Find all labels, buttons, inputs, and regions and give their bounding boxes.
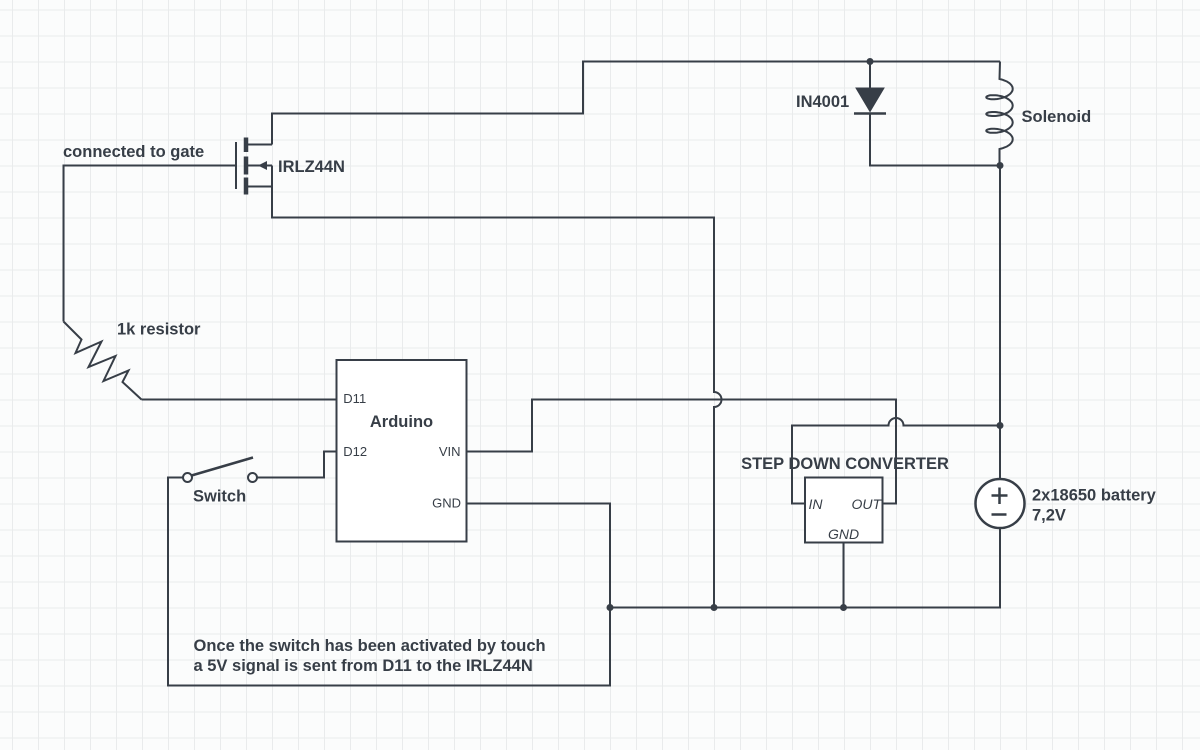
wire drain to top rail [272, 62, 1000, 145]
node gnd converter [840, 604, 847, 611]
wire converter GND lead [843, 543, 845, 608]
node gnd mid [711, 604, 718, 611]
wire resistor to D11 [142, 399, 337, 401]
step-down converter U2 box [805, 478, 883, 543]
wire battery bottom rail [610, 528, 1000, 608]
node battery plus [997, 422, 1004, 429]
node diode top [867, 58, 874, 65]
svg-text:7,2V: 7,2V [1032, 507, 1066, 525]
switch S1 [183, 458, 257, 483]
junction dots [607, 58, 1004, 611]
wire VIN to converter OUT [467, 400, 897, 504]
arduino U1 box [337, 360, 467, 542]
svg-text:1k resistor: 1k resistor [117, 321, 201, 339]
svg-text:Arduino: Arduino [370, 413, 433, 431]
svg-text:IN: IN [809, 496, 824, 512]
svg-text:a 5V signal is sent from D11 t: a 5V signal is sent from D11 to the IRLZ… [194, 657, 533, 675]
wire converter IN to battery with hop [792, 418, 1000, 503]
transistor Q1 IRLZ44N [236, 138, 272, 195]
svg-text:Once the switch has been activ: Once the switch has been activated by to… [194, 637, 546, 655]
resistor R 1k [64, 322, 142, 400]
svg-text:VIN: VIN [439, 444, 461, 459]
inductor L1 solenoid [986, 62, 1012, 166]
svg-text:D11: D11 [343, 391, 366, 406]
svg-text:IN4001: IN4001 [796, 93, 849, 111]
svg-text:GND: GND [432, 496, 461, 511]
wire source to bottom rail with hop [272, 166, 722, 608]
wire battery top [999, 166, 1001, 480]
battery B1 [976, 479, 1025, 528]
wire switch right to D12 [257, 452, 337, 478]
wire gate lead [64, 166, 237, 322]
diode D1 IN4001 [854, 88, 886, 114]
svg-text:IRLZ44N: IRLZ44N [278, 158, 345, 176]
svg-text:STEP DOWN CONVERTER: STEP DOWN CONVERTER [741, 455, 949, 473]
svg-text:D12: D12 [343, 444, 367, 459]
svg-text:Solenoid: Solenoid [1022, 108, 1092, 126]
wire diode branch [870, 62, 1000, 166]
node solenoid bottom [997, 162, 1004, 169]
svg-text:connected to gate: connected to gate [63, 143, 204, 161]
svg-text:GND: GND [828, 526, 859, 542]
svg-text:Switch: Switch [193, 488, 246, 506]
svg-text:OUT: OUT [851, 496, 882, 512]
svg-text:2x18650 battery: 2x18650 battery [1032, 487, 1157, 505]
wire GND loop note box [168, 478, 610, 686]
node gnd left [607, 604, 614, 611]
